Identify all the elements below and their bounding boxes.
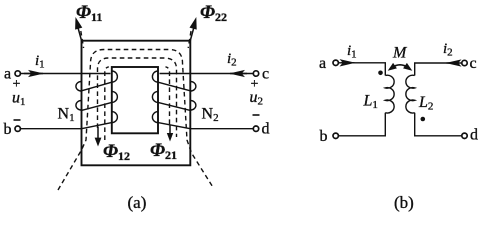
flux loop dashed line outer with leakage tails bbox=[58, 50, 213, 191]
leakage dash at top-right corner bbox=[188, 31, 191, 48]
minus sign u1 bbox=[14, 119, 21, 121]
core outer rectangle bbox=[82, 41, 191, 166]
terminal c (b) bbox=[462, 60, 467, 65]
mutual inductance arrow M bbox=[392, 65, 409, 68]
wire L2 bottom to d bbox=[415, 113, 462, 136]
svg-text:(b): (b) bbox=[394, 193, 414, 212]
svg-text:a: a bbox=[4, 66, 11, 83]
wire terminal c to winding N2 bbox=[160, 73, 254, 75]
inductor L2 coil bbox=[406, 75, 415, 113]
flux arrow phi12 bbox=[97, 127, 99, 140]
flux dashed line left near window bbox=[105, 67, 109, 140]
terminal d bbox=[253, 126, 258, 131]
core window inner rectangle bbox=[112, 67, 158, 133]
svg-text:d: d bbox=[470, 127, 478, 144]
flux arrow phi21 bbox=[169, 125, 171, 135]
wire terminal a to winding N1 bbox=[21, 73, 111, 75]
minus sign u2 bbox=[253, 114, 260, 116]
terminal a bbox=[15, 71, 20, 76]
svg-text:b: b bbox=[320, 128, 328, 145]
terminal b bbox=[15, 126, 20, 131]
svg-text:(a): (a) bbox=[128, 193, 147, 212]
svg-text:M: M bbox=[392, 45, 408, 62]
wire terminal d to winding N2 bbox=[190, 128, 253, 130]
svg-text:c: c bbox=[262, 66, 269, 83]
current arrow i2 (a) bbox=[230, 73, 247, 75]
svg-text:a: a bbox=[319, 55, 326, 72]
current arrow i1 (b) bbox=[341, 62, 355, 64]
svg-text:b: b bbox=[4, 121, 12, 138]
polarity dot L2 bbox=[421, 117, 426, 122]
inductor L1 coil bbox=[385, 75, 394, 113]
terminal d (b) bbox=[462, 133, 467, 138]
wire c to L2 top bbox=[415, 63, 462, 76]
flux arrow phi22 bbox=[190, 27, 194, 41]
current arrow i2 (b) bbox=[447, 62, 460, 64]
wire L1 bottom to b bbox=[339, 113, 386, 136]
flux dashed line right near window bbox=[166, 67, 170, 124]
flux arrow phi11 bbox=[78, 27, 82, 41]
svg-text:c: c bbox=[470, 55, 477, 72]
terminal c bbox=[253, 71, 258, 76]
svg-text:d: d bbox=[262, 121, 270, 138]
flux loop dashed line inner bbox=[98, 58, 177, 137]
terminal a (b) bbox=[333, 60, 338, 65]
winding N1 on left leg bbox=[76, 71, 118, 129]
leakage dash at top-left corner bbox=[81, 31, 84, 48]
polarity dot L1 bbox=[378, 71, 383, 76]
terminal b (b) bbox=[333, 133, 338, 138]
winding N2 on right leg bbox=[152, 71, 195, 129]
current arrow i1 (a) bbox=[24, 73, 43, 75]
wire a to L1 top bbox=[339, 63, 386, 76]
wire terminal b to winding N1 bbox=[21, 128, 82, 130]
